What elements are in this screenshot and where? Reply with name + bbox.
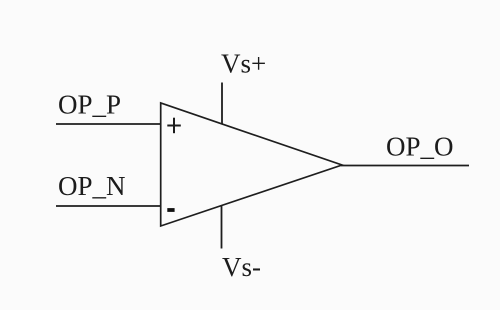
svg-text:OP_O: OP_O — [386, 132, 454, 162]
pin + non-inverting marker — [167, 118, 181, 134]
op-amp U1 triangle body — [161, 103, 342, 226]
wire OP_O output — [341, 165, 469, 167]
svg-text:OP_N: OP_N — [58, 171, 126, 201]
wire OP_P input — [56, 123, 161, 125]
svg-text:Vs-: Vs- — [222, 252, 261, 282]
wire OP_N input — [56, 205, 161, 207]
svg-text:Vs+: Vs+ — [221, 48, 266, 78]
wire Vs+ supply — [221, 83, 223, 125]
pin - inverting marker — [167, 208, 174, 212]
wire Vs- supply — [221, 206, 223, 249]
svg-text:OP_P: OP_P — [58, 89, 121, 119]
